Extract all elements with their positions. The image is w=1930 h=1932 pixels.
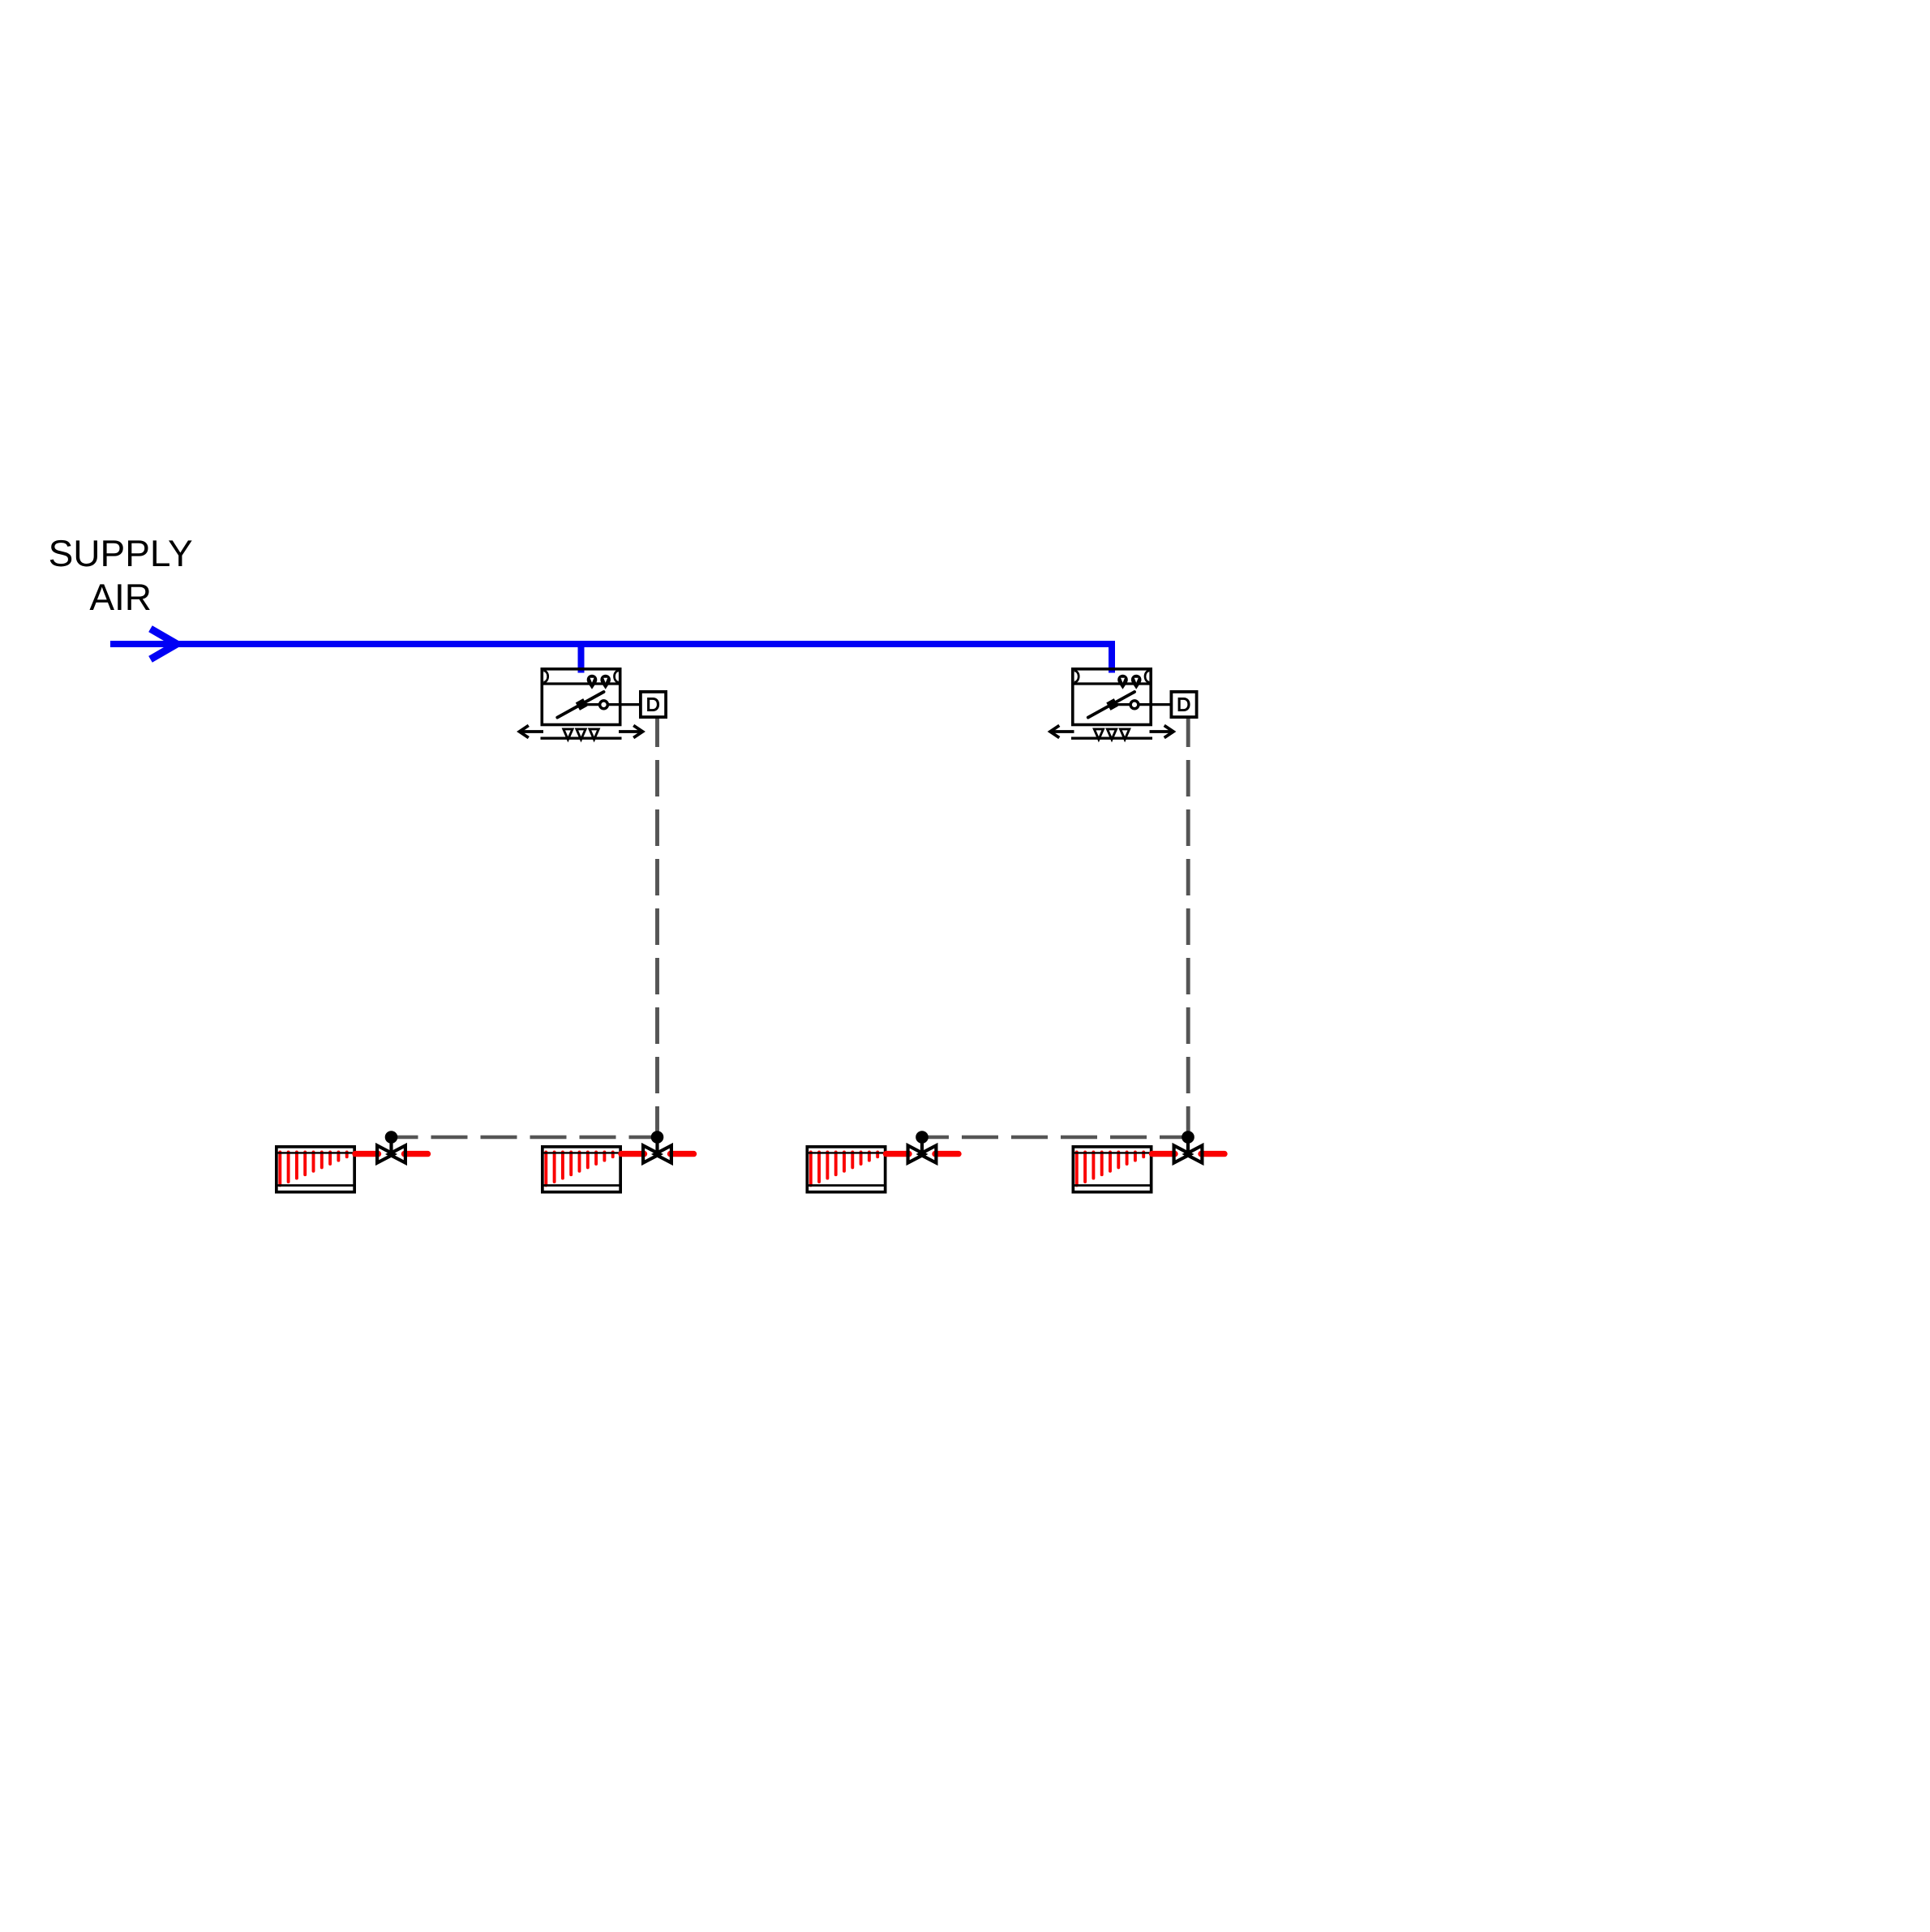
VAV box V1 damper blade (557, 692, 603, 718)
VAV box V2 damper blade (1088, 692, 1134, 718)
VAV box V1 casing (542, 669, 620, 725)
VAV box V2 left roller arc (1074, 671, 1079, 682)
VAV box V2 left nozzle pin (1117, 675, 1128, 689)
VAV box V1 damper pivot square (576, 698, 588, 711)
VAV box V2 casing (1073, 669, 1151, 725)
radiator valve 2 body (643, 1145, 671, 1162)
hot water pipe into valve 3 (886, 1151, 910, 1157)
hot water pipe out of valve 1 (405, 1151, 428, 1157)
hot water pipe into valve 2 (621, 1151, 645, 1157)
radiator R2 hatch lines (546, 1152, 612, 1185)
radiator valve 4 stem (1186, 1138, 1190, 1154)
damper actuator D2 box (1171, 692, 1196, 717)
VAV box V1 slide rail triangles (564, 729, 598, 740)
radiator valve 2 actuator dot (651, 1131, 664, 1144)
radiator valve 3 stem (920, 1138, 924, 1154)
radiator R1 top inner line (277, 1152, 354, 1153)
hot water pipe out of valve 2 (671, 1151, 694, 1157)
VAV box V2 slide rail line (1071, 737, 1152, 740)
radiator R1 casing (277, 1147, 354, 1192)
VAV box V1 right roller arc (615, 671, 619, 682)
VAV box V2 right travel arrow (1150, 725, 1174, 737)
VAV box V2 left travel arrow (1050, 725, 1074, 737)
hot water pipe into valve 4 (1152, 1151, 1176, 1157)
VAV box V2 linkage circle (1130, 701, 1139, 709)
duct branch to VAV box V1 (578, 644, 585, 673)
svg-text:AIR: AIR (89, 576, 152, 618)
VAV box V2 right nozzle pin (1131, 675, 1142, 689)
radiator R1 hatch lines (280, 1152, 346, 1185)
VAV box V1 slide rail line (541, 737, 622, 740)
hot water pipe out of valve 3 (935, 1151, 959, 1157)
radiator R2 bottom inner line (543, 1184, 620, 1187)
VAV box V1 left travel arrow (520, 725, 544, 737)
radiator R4 hatch lines (1077, 1152, 1143, 1185)
radiator valve 2 stem (655, 1138, 658, 1154)
control line valve 3 to valve 4 (922, 1136, 1188, 1140)
radiator R2 casing (543, 1147, 620, 1192)
radiator R3 casing (807, 1147, 885, 1192)
VAV box V2 slide rail triangles (1094, 729, 1129, 740)
VAV box V1 inlet band line (543, 682, 620, 685)
radiator valve 3 body (908, 1145, 937, 1162)
radiator valve 3 actuator dot (916, 1131, 929, 1144)
control line from D2 down to valve 4 (1186, 719, 1190, 1137)
VAV box V1 left roller arc (543, 671, 547, 682)
supply air duct flow arrowhead (151, 629, 178, 659)
radiator valve 4 body (1174, 1145, 1203, 1162)
VAV box V1 right nozzle pin (600, 675, 611, 689)
radiator R4 casing (1073, 1147, 1151, 1192)
radiator R2 top inner line (543, 1152, 620, 1153)
supply air duct main line (110, 644, 1112, 673)
VAV box V2 right roller arc (1145, 671, 1149, 682)
VAV box V1 right travel arrow (619, 725, 643, 737)
damper actuator D1 label (647, 698, 659, 711)
control line valve 1 to valve 2 (392, 1136, 658, 1140)
VAV box V1 linkage circle (600, 701, 608, 709)
control line from D1 down to valve 2 (655, 719, 659, 1137)
damper actuator D1 box (641, 692, 666, 717)
radiator R4 top inner line (1074, 1152, 1151, 1153)
damper actuator D2 label (1178, 698, 1190, 711)
radiator valve 4 actuator dot (1182, 1131, 1194, 1144)
VAV box V2 actuator rod (1113, 703, 1171, 706)
radiator valve 1 body (377, 1145, 405, 1162)
hot water pipe into valve 1 (355, 1151, 379, 1157)
radiator R3 hatch lines (811, 1152, 877, 1185)
radiator R1 bottom inner line (277, 1184, 354, 1187)
hot water pipe out of valve 4 (1201, 1151, 1224, 1157)
svg-text:SUPPLY: SUPPLY (49, 532, 193, 574)
VAV box V1 left nozzle pin (587, 675, 598, 689)
SUPPLY AIR label (49, 532, 193, 618)
VAV box V2 inlet band line (1074, 682, 1150, 685)
radiator valve 1 actuator dot (385, 1131, 398, 1144)
radiator R3 bottom inner line (808, 1184, 885, 1187)
VAV box V2 damper pivot square (1106, 698, 1118, 711)
radiator R3 top inner line (808, 1152, 885, 1153)
radiator valve 1 stem (389, 1138, 392, 1154)
VAV box V1 actuator rod (581, 703, 640, 706)
radiator R4 bottom inner line (1074, 1184, 1151, 1187)
